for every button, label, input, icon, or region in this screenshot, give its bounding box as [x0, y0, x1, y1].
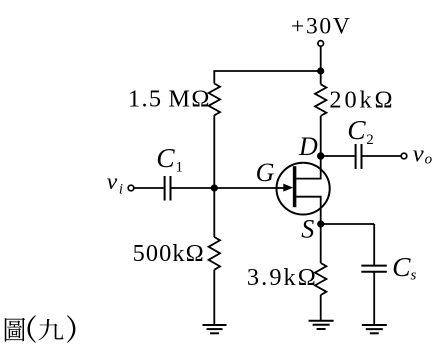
svg-text:500kΩ: 500kΩ	[133, 240, 205, 267]
wire R 3.9k to ground	[320, 295, 322, 321]
svg-text:o: o	[425, 151, 433, 167]
label figure caption (	[28, 315, 36, 343]
wire rail to R 20k	[320, 71, 322, 84]
svg-text:S: S	[301, 215, 314, 244]
resistor 20kohm zigzag	[315, 84, 326, 116]
capacitor C2 plates	[355, 144, 357, 169]
wire Cs bottom plate to ground	[373, 272, 375, 325]
wire drain node to C2	[321, 155, 355, 157]
terminal +30V open circle	[318, 41, 324, 47]
wire down to Cs top plate	[373, 224, 375, 266]
svg-text:1: 1	[176, 160, 184, 176]
label figure caption 九	[38, 319, 63, 341]
transistor JFET source lead	[296, 197, 321, 224]
transistor JFET drain lead	[296, 156, 321, 179]
wire R 500k to ground	[213, 270, 215, 325]
transistor JFET channel bar	[293, 166, 297, 207]
ground under 500kohm	[203, 324, 227, 326]
terminal vo open circle	[401, 153, 407, 159]
ground under Cs	[362, 324, 387, 326]
transistor JFET gate wire inside circle	[276, 187, 289, 189]
svg-text:1.5 MΩ: 1.5 MΩ	[128, 86, 211, 113]
svg-text:G: G	[256, 158, 275, 187]
svg-text:2: 2	[366, 132, 374, 148]
capacitor Cs plates	[361, 265, 387, 267]
wire R 20k to drain node	[320, 116, 322, 156]
wire vi terminal to C1	[134, 187, 164, 189]
ground under 3.9kohm	[309, 320, 334, 322]
wire gate node to R 500k	[213, 188, 215, 237]
label figure caption )	[67, 315, 75, 343]
node junction dot source S	[317, 220, 324, 227]
capacitor C1 plates	[164, 176, 166, 201]
wire source node right to Cs	[321, 223, 375, 225]
wire top rail	[213, 70, 320, 72]
svg-text:C: C	[347, 114, 366, 145]
svg-text:v: v	[413, 140, 424, 167]
svg-text:3.9kΩ: 3.9kΩ	[247, 264, 318, 291]
node junction dot drain D	[317, 152, 324, 159]
transistor JFET gate arrow	[283, 184, 293, 192]
svg-text:v: v	[107, 169, 118, 195]
node junction dot at +30V rail	[317, 67, 324, 74]
wire C2 to vo terminal	[362, 155, 401, 157]
svg-text:20kΩ: 20kΩ	[329, 86, 395, 113]
terminal vi open circle	[128, 185, 134, 191]
svg-text:s: s	[411, 268, 417, 284]
resistor 1.5Mohm zigzag	[209, 84, 220, 116]
node junction dot gate	[211, 184, 218, 191]
svg-text:C: C	[156, 142, 175, 173]
svg-text:+30V: +30V	[291, 14, 352, 40]
svg-text:D: D	[298, 132, 318, 161]
wire left branch upper (rail to R 1.5M)	[213, 71, 215, 84]
wire C1 to gate node and on to JFET gate	[171, 187, 285, 189]
resistor 3.9kohm zigzag	[315, 263, 326, 295]
svg-text:i: i	[119, 182, 123, 198]
transistor JFET body circle	[277, 163, 330, 215]
wire R 1.5M to gate node	[213, 115, 215, 188]
svg-text:C: C	[392, 251, 411, 282]
wire source node to R 3.9k	[320, 224, 322, 263]
wire +30V stub	[320, 46, 322, 71]
resistor 500kohm zigzag	[209, 237, 220, 270]
label figure caption 圖	[5, 318, 25, 342]
